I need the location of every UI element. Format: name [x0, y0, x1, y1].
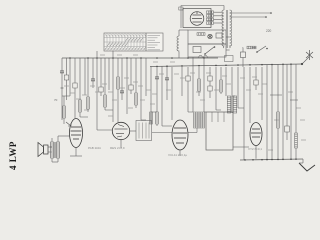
- wire drop 20: [145, 58, 147, 96]
- resistor R23 capacitor chain: [286, 64, 288, 126]
- capacitor on drop 2: [64, 75, 68, 80]
- output transformer taps: [211, 112, 213, 122]
- IF transformer L3 second winding: [233, 96, 236, 113]
- wire drop 33: [220, 67, 222, 80]
- wire drop 29: [198, 67, 200, 79]
- wire drop 24: [166, 67, 168, 78]
- control box upper: [188, 30, 226, 44]
- resistor on drop 22: [156, 112, 159, 124]
- resistor R4: [207, 22, 214, 25]
- wire drop 9: [96, 51, 98, 130]
- resistor on drop 7: [87, 97, 90, 109]
- capacitor C2: [193, 47, 201, 53]
- wire cross to bus: [302, 57, 309, 64]
- capacitor on drop 10: [99, 87, 103, 92]
- wire drop 13: [112, 51, 114, 122]
- capacitor on drop 4: [73, 83, 77, 88]
- bus junction dots: [69, 57, 71, 59]
- wire drop 31: [209, 67, 211, 76]
- speaker LS1: [38, 143, 48, 157]
- capacitor on drop 17: [129, 85, 133, 90]
- speaker transformer core: [54, 142, 56, 158]
- IF transformer L3 winding: [227, 96, 230, 113]
- svg-text:PAB 2ΩΩ: PAB 2ΩΩ: [88, 146, 102, 150]
- wire drop 16: [126, 58, 128, 114]
- wire drop 19: [140, 58, 142, 120]
- wire drop 8: [92, 58, 94, 79]
- right vertical drop 1: [266, 65, 268, 160]
- wire drop 1: [61, 58, 63, 71]
- wire drop 18: [135, 58, 137, 93]
- resistor R2: [207, 15, 214, 18]
- svg-text:4 LWP: 4 LWP: [8, 141, 18, 170]
- wire drop 7: [87, 58, 89, 97]
- wire drop 22: [156, 67, 158, 78]
- transformer base box: [225, 56, 234, 62]
- wire drop 15: [121, 58, 123, 91]
- svg-text:RES 2×0,9: RES 2×0,9: [110, 146, 125, 150]
- resistor R24: [295, 64, 297, 133]
- dial lamp L1: [208, 34, 212, 38]
- wire drop 34: [225, 67, 227, 96]
- speaker transformer secondary: [56, 142, 59, 158]
- wire drop 35: [231, 67, 233, 96]
- wire box to transformer: [226, 36, 230, 38]
- wire drop 5: [79, 58, 81, 100]
- mains lead lower: [230, 16, 266, 18]
- capacitor C3: [241, 52, 246, 58]
- resistor on drop 11: [104, 95, 107, 107]
- tube V3 lead: [120, 140, 122, 148]
- wire V4 to filter: [188, 132, 197, 134]
- wire drop 26: [181, 67, 183, 96]
- switch S2 mains: [257, 46, 266, 52]
- wire drop 40: [261, 67, 263, 120]
- wire oscillator out: [152, 132, 172, 134]
- fuse F1: [247, 46, 256, 49]
- power transformer T1 primary winding: [222, 10, 224, 48]
- switch S1: [205, 47, 214, 54]
- wire drop 10: [100, 58, 102, 87]
- bottom bus: [240, 159, 303, 160]
- tube V1 rectifier top-view: [183, 9, 211, 28]
- svg-text:VCL11 2×0,1µ: VCL11 2×0,1µ: [168, 153, 187, 157]
- wire drop 21: [150, 67, 152, 113]
- right vertical drop 4: [290, 64, 292, 159]
- resistor R3: [207, 18, 214, 21]
- capacitor on drop 27: [186, 76, 190, 81]
- svg-text:VY2 6×0,1: VY2 6×0,1: [248, 147, 262, 151]
- grid resistor R20: [63, 106, 66, 118]
- power transformer T1 secondary winding: [230, 10, 232, 48]
- wire drop 36: [237, 67, 239, 108]
- capacitor on drop 31: [208, 86, 212, 91]
- valve/voltage table: [104, 33, 163, 51]
- wire drop 32: [215, 67, 217, 110]
- wire oscillator to V3: [130, 130, 136, 132]
- resistor on drop 18: [135, 93, 138, 105]
- fuse on bus A: [198, 56, 208, 59]
- wire drop 3: [69, 58, 71, 96]
- wire drop 14: [117, 58, 119, 77]
- power transformer T1 core: [225, 10, 227, 48]
- tube V5 VY2: [250, 123, 262, 146]
- wire drop 2: [66, 58, 68, 75]
- wire drop 12: [108, 58, 110, 90]
- phase cross mark: [306, 50, 313, 60]
- resistor R5: [197, 33, 205, 36]
- right vertical drop 3: [282, 64, 284, 159]
- IF transformer core lines: [231, 96, 233, 113]
- tube V3 mixer top view: [112, 122, 129, 139]
- capacitor on drop 39: [254, 80, 258, 85]
- wire drop 28: [192, 57, 194, 112]
- wire drop 6: [84, 58, 86, 95]
- right vertical drop 2: [271, 65, 273, 160]
- capacitor C1: [216, 33, 222, 38]
- output transformer frame: [206, 112, 233, 150]
- capacitor plates on drop 24: [165, 78, 169, 80]
- svg-text:220: 220: [266, 29, 272, 33]
- control box lower: [188, 44, 226, 57]
- wire rect to V5: [233, 146, 249, 148]
- wire top feed: [181, 5, 224, 7]
- tube V2 leads: [75, 148, 77, 157]
- wire drop 17: [130, 58, 132, 85]
- tube V2 output: [70, 119, 83, 148]
- speaker wires: [48, 146, 52, 148]
- capacitor on drop 31: [208, 76, 212, 81]
- resistor on drop 5: [79, 100, 82, 112]
- bus B rail: [150, 64, 302, 67]
- capacitor plates on drop 8: [91, 79, 95, 81]
- capacitor plates on drop 22: [155, 77, 159, 79]
- bandfilter hatched box: [194, 112, 205, 128]
- resistor R1: [207, 11, 214, 14]
- wire drop 39: [255, 67, 257, 80]
- bus A supply rail: [62, 57, 218, 59]
- resistor on drop 21: [150, 112, 153, 124]
- wire drop 23: [161, 66, 163, 126]
- resistor on drop 14: [117, 77, 120, 89]
- wire fuse: [252, 47, 257, 49]
- wire drop 27: [187, 67, 189, 76]
- resistor on drop 33: [220, 80, 223, 92]
- wire to ground: [302, 159, 304, 163]
- tube V4 lead: [179, 150, 181, 156]
- coupling arrow: [66, 122, 71, 126]
- speaker transformer primary: [50, 142, 53, 158]
- oscillator box: [136, 121, 152, 141]
- wires resistor bank to transformer: [214, 12, 223, 23]
- value labels: [64, 55, 306, 150]
- wire drop 30: [203, 57, 205, 112]
- ground symbol: [299, 163, 315, 171]
- wire drop 25: [171, 67, 173, 120]
- tube V4 VCL11: [172, 120, 188, 150]
- svg-text:70: 70: [54, 98, 58, 102]
- wire drop 37: [243, 67, 245, 160]
- mains lead upper: [230, 12, 271, 14]
- interconnect wires: [62, 95, 298, 130]
- capacitor plates on drop 1: [60, 71, 64, 73]
- fuse F2: [179, 7, 183, 10]
- capacitor plates on drop 15: [120, 91, 124, 93]
- antenna coil L2: [177, 36, 179, 52]
- tube V5 lead: [255, 146, 257, 159]
- wire drop 11: [104, 58, 106, 95]
- wire drop 38: [249, 67, 251, 123]
- wire drop 4: [74, 58, 76, 83]
- resistor on drop 29: [198, 79, 201, 91]
- speaker lead bottom: [57, 158, 59, 162]
- resistor R22: [277, 64, 279, 112]
